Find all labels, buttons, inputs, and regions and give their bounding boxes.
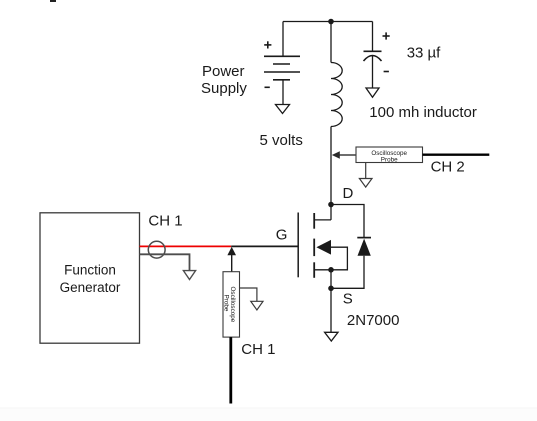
wire capacitor bottom lead bbox=[372, 56, 374, 88]
probe tip circle bbox=[148, 241, 165, 258]
wire source lead bbox=[330, 270, 332, 289]
wire battery bottom lead bbox=[282, 80, 284, 105]
wire CH1 lead bbox=[229, 337, 232, 403]
inductor L1 bbox=[331, 63, 342, 127]
node S junction bbox=[328, 286, 334, 292]
label battery plus bbox=[264, 41, 271, 48]
wire body diode branch top bbox=[331, 205, 364, 238]
label capacitor plus bbox=[383, 32, 390, 39]
transistor Q1 gate line bbox=[297, 213, 299, 278]
label capacitor minus bbox=[384, 71, 389, 73]
function generator box bbox=[40, 213, 140, 343]
diode D1 bbox=[358, 239, 371, 256]
ground capacitor bbox=[366, 88, 379, 97]
ground probe CH1 bbox=[251, 301, 263, 310]
transistor Q1 channel segments bbox=[313, 213, 315, 278]
svg-text:S: S bbox=[343, 291, 353, 308]
oscilloscope probe CH2 box bbox=[356, 147, 423, 163]
node source stub junction bbox=[328, 267, 334, 273]
ground battery bbox=[276, 105, 290, 114]
wire probe CH2 to drain bbox=[338, 154, 356, 156]
wire capacitor top lead bbox=[372, 22, 374, 52]
wire inductor top lead bbox=[330, 22, 332, 63]
ground probe CH2 bbox=[359, 179, 372, 188]
wire top rail bbox=[283, 21, 373, 23]
wire drain riser bbox=[330, 127, 332, 220]
arrowhead probe CH1 bbox=[227, 247, 236, 255]
wire CH2 lead bbox=[423, 154, 490, 156]
ground generator bbox=[183, 271, 195, 280]
wire drain stub bbox=[314, 219, 331, 221]
svg-text:CH 1: CH 1 bbox=[148, 213, 182, 230]
wire gate lead bbox=[231, 245, 298, 247]
svg-text:CH 2: CH 2 bbox=[431, 158, 465, 175]
oscilloscope probe CH1 box bbox=[222, 272, 239, 337]
label battery minus bbox=[265, 86, 270, 88]
wire source to ground bbox=[330, 288, 332, 332]
wire probe CH2 ground lead bbox=[365, 163, 367, 179]
svg-text:5 volts: 5 volts bbox=[260, 132, 303, 149]
node top rail junction bbox=[328, 19, 334, 25]
wire probe CH1 ground lead bbox=[240, 288, 257, 301]
wire probe CH1 to gate wire bbox=[231, 254, 233, 272]
svg-text:D: D bbox=[343, 185, 354, 202]
svg-text:Probe: Probe bbox=[222, 295, 229, 312]
wire body diode branch bottom bbox=[331, 256, 364, 288]
svg-text:Supply: Supply bbox=[201, 80, 247, 97]
transistor Q1 body arrow bbox=[316, 240, 331, 255]
svg-text:G: G bbox=[276, 226, 288, 243]
svg-text:2N7000: 2N7000 bbox=[347, 312, 400, 329]
node D junction bbox=[328, 202, 334, 208]
wire battery top lead bbox=[282, 22, 284, 57]
capacitor C1 bbox=[364, 51, 382, 61]
arrowhead probe CH2 bbox=[332, 151, 340, 158]
svg-text:Function: Function bbox=[64, 262, 116, 277]
svg-text:33 µf: 33 µf bbox=[407, 45, 441, 62]
svg-text:Probe: Probe bbox=[381, 156, 398, 163]
wire generator ground lead bbox=[140, 254, 190, 270]
wire body connection bbox=[331, 247, 347, 270]
svg-text:Generator: Generator bbox=[60, 280, 121, 295]
diode D1 cathode bar bbox=[357, 237, 371, 239]
wire source stub bbox=[314, 269, 331, 271]
battery B1 plates bbox=[264, 56, 300, 80]
svg-text:CH 1: CH 1 bbox=[241, 341, 275, 358]
ground source bbox=[325, 332, 338, 341]
svg-text:100 mh inductor: 100 mh inductor bbox=[369, 104, 477, 121]
svg-text:Power: Power bbox=[202, 63, 245, 80]
label Function Generator bbox=[60, 262, 121, 295]
wire red signal bbox=[140, 245, 232, 247]
